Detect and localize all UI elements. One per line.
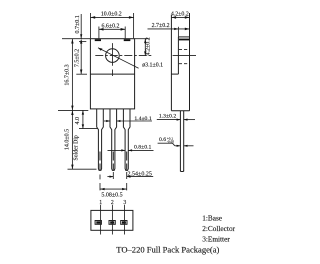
mounting hole circle — [106, 49, 120, 63]
svg-text:-0.05: -0.05 — [167, 140, 174, 144]
svg-text:4.2±0.2: 4.2±0.2 — [145, 37, 151, 55]
svg-text:3:Emitter: 3:Emitter — [202, 234, 230, 243]
svg-text:3: 3 — [123, 200, 126, 206]
lead 3 front view — [123, 109, 130, 170]
dimension 10.0±0.2 — [91, 13, 134, 38]
svg-text:0.8±0.1: 0.8±0.1 — [134, 145, 151, 151]
side view lead — [180, 111, 183, 172]
svg-text:14.0±0.5: 14.0±0.5 — [64, 129, 70, 150]
dimension 0.7±0.1 — [79, 14, 86, 42]
dimension 4.2±0.2 side (top) — [171, 16, 189, 19]
svg-text:1.4±0.1: 1.4±0.1 — [134, 116, 151, 122]
bottom view pin 1 — [95, 205, 101, 235]
dimension 1.4±0.1 — [104, 120, 152, 122]
svg-text:10.0±0.2: 10.0±0.2 — [101, 11, 122, 17]
svg-text:16.7±0.3: 16.7±0.3 — [65, 64, 71, 85]
svg-text:4.2±0.2: 4.2±0.2 — [171, 11, 189, 17]
svg-text:1: 1 — [99, 200, 102, 206]
side view hole hidden lines — [173, 50, 196, 64]
bottom view pin 2 — [109, 205, 115, 235]
svg-text:Solder Dip: Solder Dip — [74, 135, 80, 160]
svg-text:5.08±0.5: 5.08±0.5 — [101, 192, 122, 198]
hole leader line — [98, 48, 139, 69]
dimension 4.0 — [79, 110, 97, 128]
svg-text:0.6: 0.6 — [159, 137, 166, 143]
svg-text:1:Base: 1:Base — [202, 214, 222, 223]
front view body outline — [90, 39, 134, 109]
dimension 0.8±0.1 — [108, 149, 154, 151]
svg-text:ø3.1±0.1: ø3.1±0.1 — [142, 62, 163, 68]
dimension 6.6±0.2 — [99, 27, 125, 39]
dimension 4.2±0.2 front (hole to top) — [144, 39, 146, 56]
dimension 2.54±0.25 — [107, 172, 153, 179]
dimension 1.3±0.2 — [157, 119, 195, 121]
lead 2 front view — [110, 109, 117, 170]
dimension 0.6 +0.1/-0.05 — [158, 143, 194, 147]
bottom view pin 3 — [121, 205, 127, 235]
svg-text:0.7±0.1: 0.7±0.1 — [75, 15, 81, 33]
hole vertical centerline — [112, 43, 114, 76]
dimension 7.5±0.2 — [76, 39, 87, 74]
svg-text:1.3±0.2: 1.3±0.2 — [159, 113, 176, 119]
front view tab notch left — [95, 39, 101, 41]
dimension 16.7±0.3 — [58, 39, 88, 111]
bottom view outline — [91, 210, 133, 230]
front view tab notch right — [124, 39, 131, 41]
hole horizontal centerline — [95, 55, 152, 57]
svg-text:6.6±0.2: 6.6±0.2 — [102, 23, 120, 29]
svg-text:7.5±0.2: 7.5±0.2 — [75, 49, 81, 67]
side view tab dark strip — [179, 39, 189, 41]
svg-text:2.7±0.2: 2.7±0.2 — [152, 23, 170, 29]
svg-text:TO–220 Full Pack Package(a): TO–220 Full Pack Package(a) — [116, 244, 219, 254]
svg-text:4.0: 4.0 — [75, 117, 81, 125]
svg-text:2:Collector: 2:Collector — [202, 224, 235, 233]
dimension 5.08±0.5 — [100, 175, 127, 191]
dimension 14.0±0.5 — [68, 110, 97, 169]
side view body — [171, 13, 189, 111]
lead 1 front view — [97, 109, 104, 170]
top edge extension line right — [135, 38, 149, 40]
top edge extension line left — [62, 38, 90, 40]
dimension 2.7±0.2 — [148, 27, 190, 37]
svg-text:2: 2 — [111, 200, 114, 206]
svg-text:2.54±0.25: 2.54±0.25 — [128, 172, 152, 178]
